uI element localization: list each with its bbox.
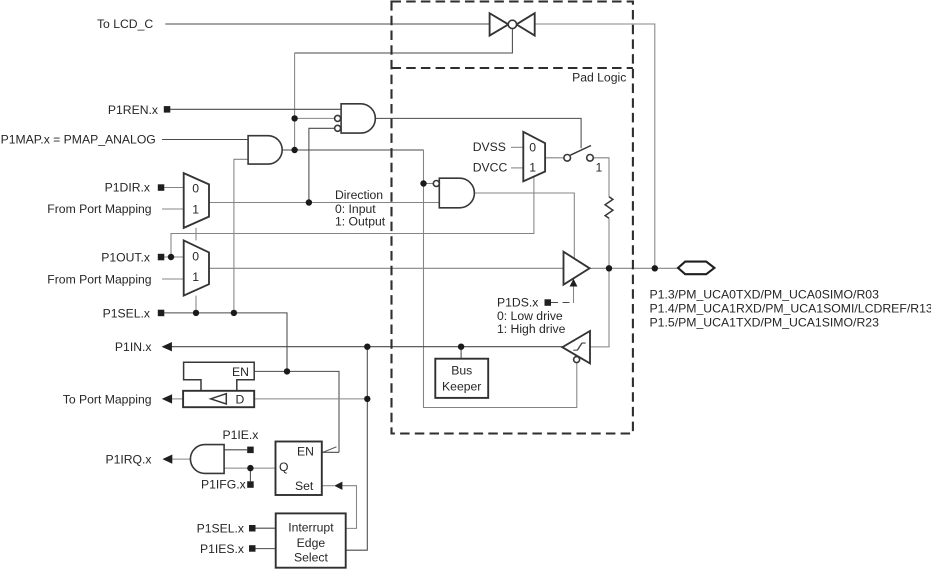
arrow Set input	[334, 482, 342, 490]
svg-text:P1MAP.x = PMAP_ANALOG: P1MAP.x = PMAP_ANALOG	[1, 133, 156, 147]
svg-text:Direction: Direction	[335, 188, 383, 202]
wire pad to schmitt input	[591, 268, 609, 347]
wire P1SEL.x line	[164, 313, 287, 372]
wire DVCC stub	[511, 167, 523, 169]
svg-text:1: 1	[192, 203, 199, 217]
arrow P1IN.x	[162, 342, 172, 351]
output driver buffer	[564, 252, 590, 285]
wire switch to resistor	[593, 158, 609, 197]
terminal square P1IE.x	[247, 447, 254, 454]
svg-text:P1DS.x: P1DS.x	[497, 296, 538, 310]
svg-text:P1.3/PM_UCA0TXD/PM_UCA0SIMO/R0: P1.3/PM_UCA0TXD/PM_UCA0SIMO/R03	[650, 287, 880, 301]
junction: pad node at resistor leg	[606, 265, 612, 271]
svg-text:D: D	[236, 393, 245, 407]
junction: P1SEL to analog AND	[231, 310, 237, 316]
wire direction AND output to driver enable	[474, 193, 574, 259]
svg-text:EN: EN	[297, 444, 314, 458]
svg-text:DVSS: DVSS	[473, 140, 506, 154]
terminal square P1DS.x	[545, 299, 552, 306]
transmission gate to LCD_C	[490, 13, 535, 35]
wire P1OUT.x input	[164, 256, 184, 258]
wire From Port Mapping input 2	[162, 278, 184, 280]
svg-text:To LCD_C: To LCD_C	[97, 17, 153, 31]
wire EN latch enable from P1SEL to interrupt EN	[254, 371, 339, 452]
svg-text:P1IES.x: P1IES.x	[200, 542, 244, 556]
junction: Q output to P1IFG	[247, 465, 253, 471]
wire P1OUT branch to DVSS/DVCC mux select	[171, 177, 534, 257]
terminal square P1OUT.x	[158, 254, 165, 260]
terminal square P1SEL.x	[158, 310, 165, 317]
wire Direction line	[209, 202, 439, 204]
svg-text:P1DIR.x: P1DIR.x	[105, 181, 150, 195]
junction: analog AND output node	[291, 147, 297, 153]
svg-text:Select: Select	[294, 550, 328, 564]
arrow P1IRQ.x	[162, 455, 172, 464]
wire To LCD_C	[165, 23, 489, 25]
svg-text:1: Output: 1: Output	[335, 215, 386, 229]
junction: P1SEL to latch EN	[284, 368, 290, 374]
wire mux select link between muxes	[195, 228, 197, 241]
svg-text:1: 1	[529, 161, 536, 175]
wire NAND bottom input from Direction line	[309, 128, 335, 202]
wire DVSS stub	[511, 146, 523, 148]
Pad Logic divider dashed line	[392, 67, 633, 69]
wire transmission gate output to pad node	[535, 24, 655, 268]
wire To Port Mapping from D box	[172, 398, 183, 400]
junction: P1OUT branch	[168, 254, 174, 260]
wire EN wedge diagonal	[322, 447, 337, 453]
svg-text:P1REN.x: P1REN.x	[108, 103, 158, 117]
clock triangle in D box	[211, 394, 227, 404]
svg-text:P1SEL.x: P1SEL.x	[197, 522, 244, 536]
wire P1IN.x line	[172, 346, 563, 348]
svg-text:Keeper: Keeper	[442, 379, 481, 393]
wire P1IE input	[224, 449, 247, 451]
junction: analog enable to direction AND	[420, 180, 426, 186]
svg-text:Pad Logic: Pad Logic	[572, 71, 626, 85]
svg-text:P1IE.x: P1IE.x	[223, 428, 259, 442]
NAND gate U1 (P1REN pull enable, two inverted inputs)	[335, 104, 376, 133]
wire IRQ AND output	[172, 458, 191, 460]
svg-text:P1IRQ.x: P1IRQ.x	[105, 453, 151, 467]
wire edge select output to Set	[342, 486, 356, 529]
svg-text:Edge: Edge	[297, 536, 326, 550]
svg-text:From Port Mapping: From Port Mapping	[47, 272, 151, 286]
wire Q output to IRQ AND	[224, 467, 275, 469]
terminal square P1IFG.x	[247, 481, 254, 488]
svg-text:1: High drive: 1: High drive	[497, 322, 566, 336]
wire stub to direction AND inverted input	[424, 183, 434, 185]
wire analog AND output to input buffer enable	[282, 149, 423, 151]
junction: P1SEL to mux selects	[193, 310, 199, 316]
wire P1SEL.x to interrupt edge select	[256, 527, 276, 529]
junction: D input tap	[364, 396, 370, 402]
mux P1OUT/From Port Mapping	[184, 240, 209, 295]
svg-text:Q: Q	[279, 460, 288, 474]
svg-text:P1IFG.x: P1IFG.x	[201, 477, 246, 491]
switch (resistor enable)	[564, 146, 593, 162]
bus keeper box	[435, 359, 488, 398]
wire P1DS dashed pointer	[551, 302, 574, 304]
terminal square P1DIR.x	[158, 184, 165, 191]
junction: P1IN to bus keeper	[458, 344, 464, 350]
latch EN box	[184, 362, 255, 391]
svg-text:P1OUT.x: P1OUT.x	[101, 250, 150, 264]
interrupt flag box (EN/Q/Set)	[276, 442, 322, 496]
svg-text:0: 0	[192, 182, 199, 196]
wire NAND output to resistor switch control	[375, 118, 581, 148]
wire Set input stub	[322, 485, 334, 487]
wire From Port Mapping input 1	[162, 208, 184, 210]
Pad Logic dashed box	[392, 2, 633, 434]
arrow To Port Mapping	[162, 394, 172, 403]
wire resistor to pad line	[608, 218, 610, 268]
P1DS arrow into driver	[570, 279, 578, 287]
mux DVSS/DVCC	[523, 132, 545, 182]
wire EN wedge stub	[322, 451, 339, 453]
junction: P1IN to latch D / edge select	[364, 344, 370, 350]
AND gate U2 (P1MAP analog)	[248, 136, 282, 164]
resistor R	[605, 197, 613, 219]
svg-text:EN: EN	[232, 365, 249, 379]
wire output mux to driver	[209, 267, 564, 269]
latch D box	[183, 391, 254, 407]
wire bus keeper stub	[460, 347, 462, 359]
svg-text:Bus: Bus	[451, 364, 472, 378]
svg-text:DVCC: DVCC	[473, 161, 508, 175]
svg-text:P1.4/PM_UCA1RXD/PM_UCA1SOMI/LC: P1.4/PM_UCA1RXD/PM_UCA1SOMI/LCDREF/R13	[650, 301, 931, 315]
svg-text:1: 1	[596, 160, 603, 174]
svg-text:Interrupt: Interrupt	[288, 520, 334, 534]
wire input vertical to interrupt edge select	[346, 347, 368, 551]
terminal square P1SEL.x (edge select)	[249, 525, 256, 532]
IRQ AND gate (mirrored)	[190, 445, 224, 474]
terminal square P1IES.x	[249, 545, 256, 552]
svg-text:P1SEL.x: P1SEL.x	[103, 306, 150, 320]
svg-text:P1IN.x: P1IN.x	[115, 340, 152, 354]
wire P1SEL.x vertical to AND bottom input	[234, 159, 248, 313]
schmitt trigger input buffer	[562, 331, 590, 363]
svg-text:Set: Set	[295, 479, 314, 493]
svg-text:To Port Mapping: To Port Mapping	[63, 392, 152, 406]
svg-text:From Port Mapping: From Port Mapping	[47, 202, 151, 216]
svg-text:0: 0	[529, 140, 536, 154]
wire P1IFG stub	[249, 468, 251, 481]
svg-text:1: 1	[192, 270, 199, 284]
junction: Direction line to NAND inverted input	[306, 199, 312, 205]
AND gate U3 (direction, inverted top input)	[433, 178, 474, 208]
junction: pad node at LCD path	[652, 265, 658, 271]
wire P1REN.x to NAND	[170, 108, 341, 110]
junction: analog AND out to NAND inverted input	[291, 115, 297, 121]
wire D input line	[254, 398, 367, 400]
wire mux3 output to switch	[545, 157, 564, 159]
wire transmission gate control from analog AND output	[295, 29, 513, 53]
terminal square P1REN.x	[164, 106, 171, 113]
svg-text:P1.5/PM_UCA1TXD/PM_UCA1SIMO/R2: P1.5/PM_UCA1TXD/PM_UCA1SIMO/R23	[650, 316, 880, 330]
svg-text:0: 0	[192, 249, 199, 263]
mux P1DIR/From Port Mapping	[184, 173, 209, 228]
wire NAND middle input stub	[295, 117, 335, 119]
svg-text:0: Low drive: 0: Low drive	[497, 309, 563, 323]
wire P1DIR.x input	[164, 187, 184, 189]
wire P1IES.x to interrupt edge select	[256, 548, 276, 550]
wire mux2 select from P1SEL	[195, 296, 197, 313]
wire driver output to pad	[590, 267, 678, 269]
interrupt edge select box	[276, 513, 346, 567]
pad hexagon	[678, 262, 714, 275]
wire P1MAP.x input to AND	[162, 139, 248, 141]
